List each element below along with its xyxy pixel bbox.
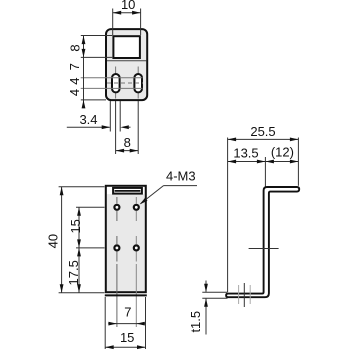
svg-text:8: 8 [68, 44, 83, 51]
svg-text:10: 10 [121, 0, 135, 12]
svg-text:4-M3: 4-M3 [166, 169, 196, 184]
svg-text:7: 7 [124, 305, 131, 320]
svg-text:15: 15 [120, 330, 134, 345]
svg-text:4: 4 [67, 77, 82, 84]
svg-text:7: 7 [67, 63, 82, 70]
svg-text:4: 4 [67, 89, 82, 96]
svg-text:(12): (12) [271, 145, 294, 160]
svg-text:t1.5: t1.5 [188, 311, 203, 333]
svg-text:40: 40 [45, 234, 60, 248]
svg-text:3.4: 3.4 [79, 112, 97, 127]
svg-text:17.5: 17.5 [66, 260, 81, 285]
svg-text:15: 15 [68, 219, 83, 233]
svg-text:25.5: 25.5 [250, 124, 275, 139]
svg-text:8: 8 [124, 135, 131, 150]
svg-text:13.5: 13.5 [233, 145, 258, 160]
